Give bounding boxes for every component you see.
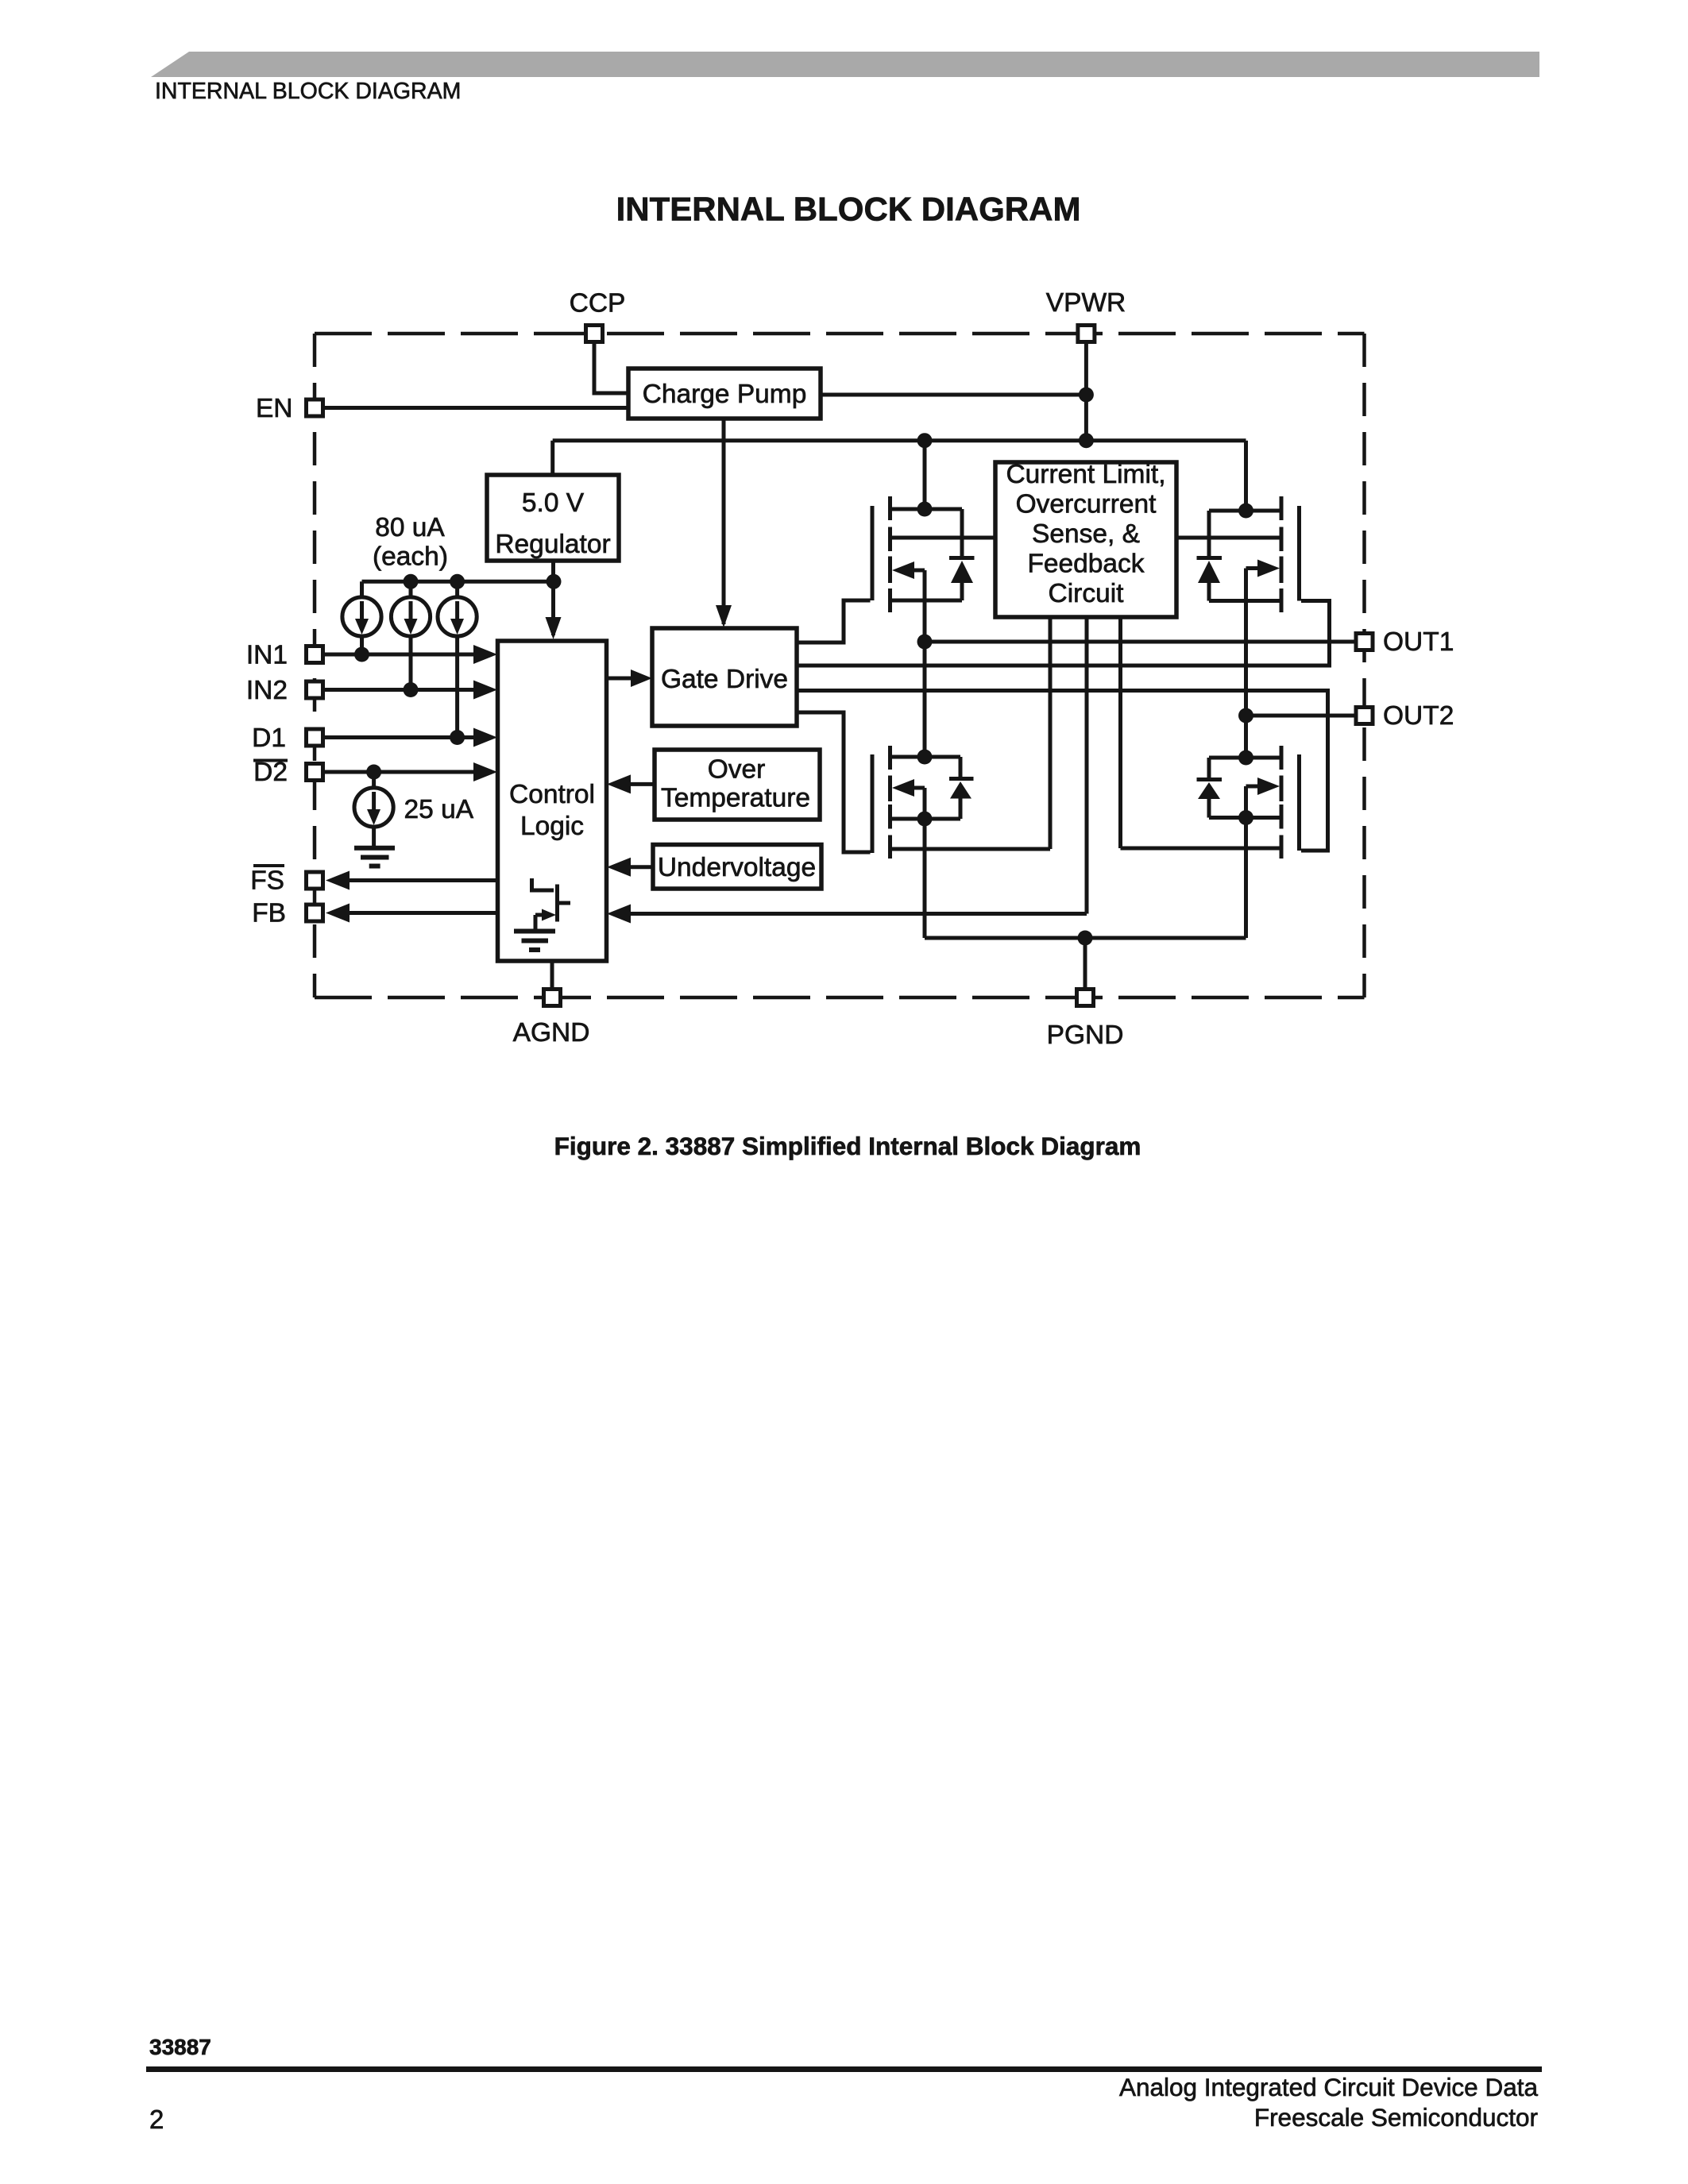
node OUT2 bridge junction — [1238, 708, 1253, 723]
svg-text:80 uA: 80 uA — [375, 513, 445, 542]
svg-text:Sense, &: Sense, & — [1032, 519, 1140, 549]
diode DQ1 body diode — [960, 509, 964, 558]
svg-text:D2: D2 — [253, 758, 288, 787]
value label 80 uA (each) — [373, 513, 448, 572]
wire current limit feedback output — [1085, 617, 1089, 914]
node Q1 drain junction — [917, 502, 933, 517]
svg-text:Figure 2. 33887 Simplified Int: Figure 2. 33887 Simplified Internal Bloc… — [554, 1132, 1141, 1160]
header gray band — [151, 52, 1539, 104]
node regulator output junction — [547, 574, 562, 589]
svg-text:EN: EN — [256, 394, 293, 423]
node OUT1 bridge junction — [917, 635, 933, 650]
wire rail drop to Q2 drain — [1244, 441, 1248, 511]
node Q4 drain junction — [1238, 751, 1253, 766]
svg-text:FB: FB — [252, 899, 286, 928]
wire current source CS1 to IN1 — [360, 636, 364, 654]
wire gate drive to Q2 gate — [797, 601, 1330, 666]
wire Q3 source to PGND rail — [923, 819, 927, 938]
svg-text:D1: D1 — [252, 723, 286, 753]
footer — [146, 2035, 1542, 2134]
block Charge Pump — [628, 369, 821, 419]
svg-text:33887: 33887 — [149, 2035, 211, 2059]
wire current limit sense left — [890, 536, 996, 540]
wire Q2 source to bridge output — [1244, 601, 1248, 758]
arrow feedback into control logic — [607, 905, 631, 924]
wire gate drive to Q3 gate — [797, 712, 871, 852]
svg-text:5.0 V: 5.0 V — [522, 488, 585, 518]
block Control Logic — [498, 641, 607, 961]
wire internal supply rail — [553, 438, 1246, 442]
diode DQ3 body diode — [959, 757, 963, 778]
arrow charge pump into gate drive — [716, 605, 732, 627]
node CS2-IN2 junction — [404, 682, 419, 697]
wire regulator output — [551, 561, 555, 635]
pin PGND — [1047, 990, 1124, 1051]
arrowheads — [326, 605, 732, 924]
node Q4 source junction — [1238, 810, 1253, 825]
pin IN2 — [246, 676, 323, 705]
wire charge pump output to VPWR node — [821, 393, 1086, 397]
pin FB — [252, 899, 323, 928]
transistor Q1 source and body — [890, 599, 963, 603]
arrow FS output — [326, 871, 350, 890]
svg-text:Gate Drive: Gate Drive — [661, 665, 788, 694]
wire gate drive to Q4 gate — [797, 691, 1328, 851]
svg-text:Logic: Logic — [520, 812, 584, 841]
svg-text:Overcurrent: Overcurrent — [1016, 490, 1157, 519]
diode DQ4 body diode — [1207, 758, 1211, 779]
node Q2 drain junction — [1238, 504, 1253, 519]
svg-text:AGND: AGND — [513, 1018, 590, 1048]
transistor Q3 source and body — [890, 817, 961, 821]
node rail-Q1 junction — [917, 433, 933, 448]
svg-text:Control: Control — [509, 780, 595, 809]
node 25uA-D2 junction — [366, 765, 381, 780]
svg-text:Charge Pump: Charge Pump — [643, 380, 807, 409]
wire control logic to AGND — [550, 961, 554, 988]
wire OUT2 rail — [1246, 714, 1354, 718]
transistor Q4 low-side right MOSFET — [1197, 746, 1300, 859]
wire undervoltage to control logic — [628, 865, 654, 869]
node CS1-IN1 junction — [354, 647, 369, 662]
wire PGND tap — [1083, 938, 1087, 988]
wire 80uA supply rail — [362, 581, 554, 597]
wire current source CS3 to D1 — [455, 636, 459, 738]
current source CS2 80uA — [391, 597, 430, 636]
node PGND junction — [1078, 931, 1093, 946]
svg-text:CCP: CCP — [570, 289, 626, 318]
arrow IN1 into control logic — [473, 645, 497, 664]
transistor Q2 high-side right MOSFET — [1197, 496, 1300, 612]
pin EN — [256, 394, 323, 423]
block Undervoltage — [653, 845, 821, 889]
svg-text:Current Limit,: Current Limit, — [1006, 460, 1165, 489]
node CS3-D1 junction — [450, 730, 465, 745]
wire 25uA source to ground — [372, 827, 376, 847]
wire feedback to control logic — [628, 912, 1087, 916]
arrow undervoltage into control logic — [607, 858, 631, 877]
wire current limit sense right — [1176, 536, 1281, 540]
wire current source CS2 to IN2 — [409, 636, 413, 690]
wire current limit output to Q3 source tap — [890, 617, 1051, 849]
wire FS — [346, 878, 532, 882]
wire EN to charge pump — [325, 406, 628, 410]
pin OUT1 — [1356, 627, 1454, 657]
wire FB — [346, 911, 498, 915]
node Q3 source junction — [917, 812, 933, 827]
pin D1 — [252, 723, 323, 753]
block Gate Drive — [652, 628, 797, 726]
current source I2 25uA — [354, 788, 393, 827]
pin CCP — [570, 289, 626, 342]
svg-text:INTERNAL BLOCK DIAGRAM: INTERNAL BLOCK DIAGRAM — [155, 79, 461, 104]
pin FS (active low) — [250, 866, 323, 896]
svg-text:PGND: PGND — [1047, 1021, 1124, 1050]
junction dots — [354, 388, 1253, 946]
svg-text:Over: Over — [708, 755, 766, 785]
block Over Temperature — [655, 750, 820, 820]
arrow regulator into control logic — [546, 617, 562, 639]
pin VPWR — [1046, 288, 1126, 342]
ground below 25uA source — [354, 848, 395, 866]
pin D2 (active low) — [253, 758, 323, 787]
wire gate drive to Q1 gate — [797, 600, 871, 642]
IC boundary dashed border — [315, 334, 1365, 997]
arrow D2 into control logic — [473, 762, 497, 781]
svg-text:2: 2 — [149, 2105, 164, 2134]
arrow control logic into gate drive — [631, 669, 652, 687]
wire Q1 source to bridge output — [923, 600, 927, 757]
transistor Q2 source and body — [1209, 599, 1281, 603]
svg-text:OUT2: OUT2 — [1383, 701, 1454, 731]
svg-text:Undervoltage: Undervoltage — [658, 853, 816, 882]
svg-text:Regulator: Regulator — [495, 530, 610, 559]
wire IN2 — [325, 688, 477, 692]
svg-text:OUT1: OUT1 — [1383, 627, 1454, 657]
svg-text:Analog Integrated Circuit Devi: Analog Integrated Circuit Device Data — [1119, 2073, 1539, 2101]
wire IN1 — [325, 653, 477, 657]
pin AGND — [513, 990, 590, 1048]
transistor Q3 low-side left MOSFET — [872, 746, 974, 859]
ground below Q5 — [514, 932, 555, 951]
arrow IN2 into control logic — [473, 681, 497, 700]
node CS2 rail junction — [404, 574, 419, 589]
wire D1 — [325, 735, 477, 739]
wire D2 — [325, 770, 477, 774]
svg-text:Circuit: Circuit — [1049, 579, 1125, 608]
wire OUT1 rail — [925, 640, 1354, 644]
arrow over temperature into control logic — [607, 774, 631, 793]
block 5.0 V Regulator — [487, 475, 619, 561]
arrow FB output — [326, 904, 350, 923]
svg-text:IN1: IN1 — [246, 641, 288, 670]
svg-text:25 uA: 25 uA — [404, 795, 474, 824]
wire Q4 source to PGND rail — [1244, 818, 1248, 939]
node VPWR-chargepump junction — [1079, 388, 1094, 403]
wire current limit output to Q4 source tap — [1121, 617, 1282, 848]
svg-text:(each): (each) — [373, 542, 448, 572]
pin IN1 — [246, 641, 323, 670]
wire D2 to 25uA source — [372, 772, 376, 788]
current source CS3 80uA — [438, 597, 477, 636]
svg-text:Feedback: Feedback — [1027, 550, 1144, 579]
block Current Limit, Overcurrent Sense, & Feedback Circuit — [995, 460, 1176, 617]
node VPWR-rail junction — [1079, 433, 1094, 448]
transistor Q4 source and body — [1209, 816, 1281, 820]
svg-text:Temperature: Temperature — [661, 784, 810, 813]
pin OUT2 — [1356, 701, 1454, 731]
wire CCP to charge pump — [594, 341, 628, 393]
wire rail drop to Q1 drain — [923, 441, 927, 509]
wire PGND rail — [925, 936, 1246, 940]
arrow D1 into control logic — [473, 728, 497, 747]
diode DQ2 body diode — [1207, 511, 1211, 558]
svg-text:FS: FS — [250, 866, 284, 896]
node Q3 drain junction — [917, 750, 933, 765]
wire charge pump to gate drive — [722, 419, 726, 624]
svg-text:VPWR: VPWR — [1046, 288, 1126, 318]
svg-text:INTERNAL BLOCK DIAGRAM: INTERNAL BLOCK DIAGRAM — [616, 191, 1081, 228]
wire control logic to gate drive — [607, 677, 634, 681]
transistor Q5 fault-status FET inside control logic — [532, 878, 571, 929]
current source CS1 80uA — [342, 597, 381, 636]
node CS3 rail junction — [450, 574, 465, 589]
wire VPWR pin drop — [1084, 343, 1088, 441]
wire rail to 5.0V regulator — [550, 441, 554, 475]
page title — [616, 191, 1081, 228]
svg-text:Freescale Semiconductor: Freescale Semiconductor — [1254, 2103, 1538, 2132]
wire over temperature to control logic — [628, 782, 655, 786]
svg-text:IN2: IN2 — [246, 676, 288, 705]
transistor Q1 high-side left MOSFET — [872, 496, 975, 612]
